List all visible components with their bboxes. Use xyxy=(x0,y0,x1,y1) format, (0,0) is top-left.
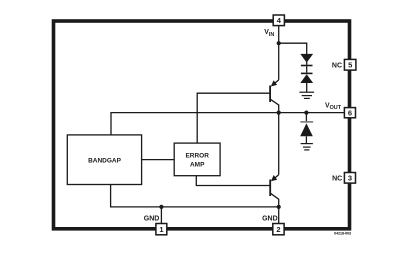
block BANDGAP xyxy=(67,135,141,185)
svg-text:5: 5 xyxy=(348,61,352,70)
diode D1 (clamp top) xyxy=(300,54,313,66)
node GND pin1 junction xyxy=(159,205,163,209)
wire bandgap to ground rail xyxy=(111,185,279,207)
block ERROR AMP xyxy=(174,143,220,176)
svg-text:NC: NC xyxy=(332,62,342,69)
node GND pin2 junction xyxy=(277,205,281,209)
wire VOUT feedback line xyxy=(111,113,344,135)
wire pin4 to VIN node xyxy=(278,26,280,44)
wire VOUT to Q2 emitter xyxy=(278,113,280,175)
node VIN junction xyxy=(277,41,281,45)
svg-text:2: 2 xyxy=(276,225,280,234)
pin box 3 xyxy=(344,173,355,184)
svg-text:3: 3 xyxy=(348,174,352,183)
pin box 4 xyxy=(273,15,284,26)
diode D2 (clamp bottom) xyxy=(300,66,313,92)
svg-text:AMP: AMP xyxy=(190,162,205,169)
ground (clamp) xyxy=(299,92,314,98)
wire error amp output to Q2 base xyxy=(196,176,270,186)
pin box 5 xyxy=(344,59,356,70)
IC outline border xyxy=(54,21,350,229)
pin box 1 xyxy=(156,224,167,235)
svg-text:NC: NC xyxy=(332,175,342,182)
diode D3 (output clamp) xyxy=(300,113,313,144)
transistor Q2 (lower PNP) xyxy=(270,175,279,207)
wire to pin 1 xyxy=(160,207,162,224)
node Q1 collector on VOUT xyxy=(277,111,281,115)
svg-text:BANDGAP: BANDGAP xyxy=(88,157,122,164)
svg-text:6: 6 xyxy=(348,109,352,118)
wire VIN node to Q1 emitter xyxy=(278,43,280,80)
node VOUT clamp junction xyxy=(304,111,308,115)
wire bandgap to error amp xyxy=(142,159,175,161)
pin box 2 xyxy=(273,224,284,235)
svg-text:1: 1 xyxy=(159,225,163,234)
wire error amp output to Q1 base xyxy=(197,93,270,143)
svg-text:ERROR: ERROR xyxy=(185,152,209,159)
svg-text:GND: GND xyxy=(262,216,278,223)
svg-text:GND: GND xyxy=(144,215,160,222)
svg-text:VIN: VIN xyxy=(264,29,274,38)
wire VIN node to clamp diodes xyxy=(279,43,307,54)
svg-text:VOUT: VOUT xyxy=(325,103,342,112)
wire to pin 2 xyxy=(278,207,280,224)
ground (output clamp) xyxy=(301,144,313,150)
pin box 6 xyxy=(344,108,355,118)
svg-text:04218-003: 04218-003 xyxy=(334,231,352,236)
transistor Q1 (upper PNP) xyxy=(270,80,279,113)
